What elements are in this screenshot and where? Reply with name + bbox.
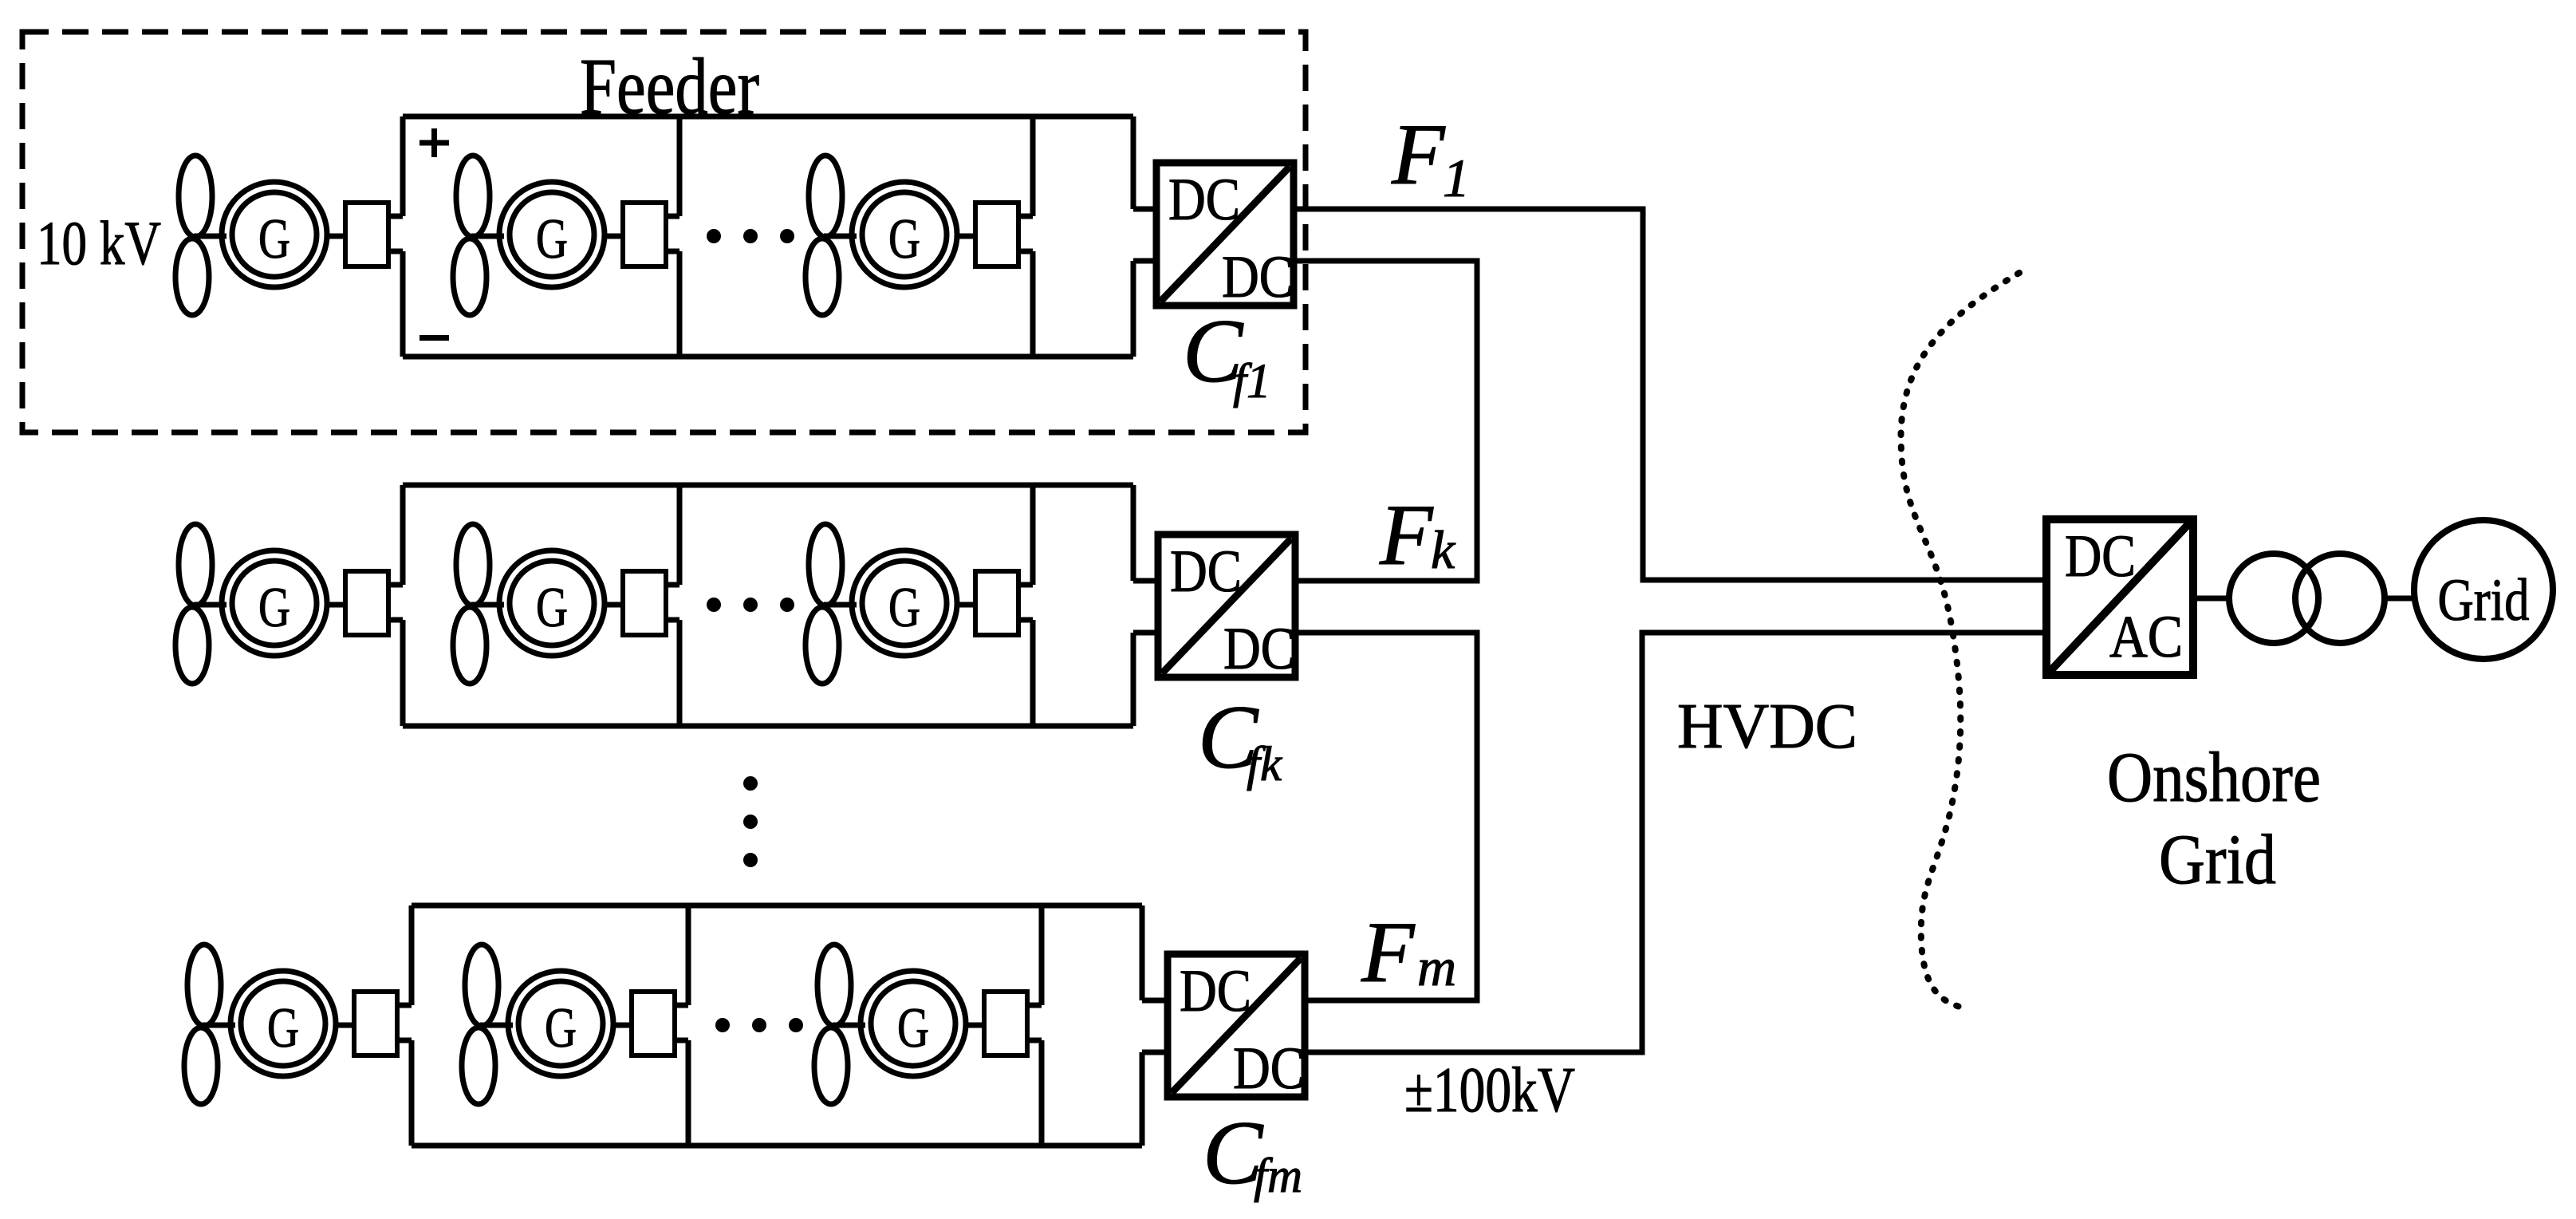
converter rect WT11 [345,203,388,266]
converter output stubs WT12 [666,216,679,251]
feeder loop separator row 2 [677,485,683,726]
feeder bus strip right edge row 3 [1140,905,1145,1146]
converter rect WT22 [623,571,666,635]
svg-text:DC: DC [1170,538,1242,605]
feeder loop bottom edge row 1 [403,354,1133,360]
converter rect WT12 [623,203,666,266]
ellipsis dots row 2 [707,598,794,612]
svg-text:G: G [258,577,290,639]
feeder loop top edge row 3 [412,903,1142,909]
svg-text:DC: DC [1168,167,1240,233]
generator G WT12 [499,182,605,287]
converter output stubs WT13 [1018,216,1033,251]
svg-text:m: m [1417,937,1456,997]
ellipsis dots row 1 [707,229,794,243]
wire generator-to-converter WT32 [613,1023,632,1028]
feeder loop left edge row 3 [409,905,415,1146]
stubs strip to DC/DC converter row 1 [1133,209,1156,261]
wind turbine WT23 [805,524,857,684]
wind turbine WT22 [453,524,504,684]
svg-text:fk: fk [1247,738,1282,791]
converter rect WT23 [975,571,1018,635]
feeder bus strip right edge row 2 [1131,485,1136,726]
feeder bus strip left edge row 3 [1039,905,1045,1146]
converter output stubs WT31 [397,1005,412,1040]
stubs strip to DC/DC converter row 3 [1142,1000,1168,1052]
svg-text:DC: DC [1233,1036,1305,1102]
svg-text:Grid: Grid [2159,821,2276,899]
wind turbine WT31 [184,945,235,1104]
svg-text:HVDC: HVDC [1677,690,1857,762]
feeder loop bottom edge row 3 [412,1143,1142,1149]
label C_fm [1203,1103,1302,1203]
svg-text:F: F [1391,106,1446,203]
svg-text:DC: DC [1180,958,1251,1024]
svg-text:10 kV: 10 kV [37,208,161,278]
dashed feeder boundary box [22,32,1306,432]
label Onshore Grid [2107,739,2321,899]
svg-text:AC: AC [2109,604,2183,670]
label F_1 [1391,106,1470,208]
wire generator-to-converter WT33 [966,1023,984,1028]
wire DC/AC to transformer [2193,596,2229,602]
wire F1 positive output to HVDC positive pole [1294,209,2046,580]
feeder loop top edge row 1 [403,114,1133,120]
svg-text:k: k [1431,519,1456,580]
transformer T1 [2229,554,2385,643]
feeder bus strip left edge row 1 [1030,116,1036,357]
label F_m [1361,904,1456,1000]
label C_f1 [1183,302,1270,408]
wind turbine WT13 [805,156,857,315]
svg-text:Onshore: Onshore [2107,739,2321,817]
coastline dotted curve [1900,273,2019,1008]
converter rect WT21 [345,571,388,635]
vertical ellipsis dots [743,776,758,867]
svg-text:1: 1 [1443,148,1470,208]
wind turbine WT12 [453,156,504,315]
svg-text:DC: DC [2065,523,2136,590]
label F_k [1379,487,1456,583]
stubs strip to DC/DC converter row 2 [1133,581,1158,633]
feeder loop left edge row 1 [400,116,406,357]
wind turbine WT33 [814,945,865,1104]
generator G WT11 [222,182,327,287]
svg-text:Grid: Grid [2438,567,2530,633]
generator G WT31 [230,971,336,1076]
converter rect WT31 [354,992,397,1055]
wire Fk negative output to Fm positive output [1295,633,1477,1000]
generator G WT32 [508,971,613,1076]
converter output stubs WT22 [666,585,679,620]
DC/DC converter C_fk box [1158,535,1295,682]
svg-text:G: G [267,997,299,1059]
wire generator-to-converter WT31 [336,1023,354,1028]
plus polarity mark [419,128,449,157]
feeder loop separator row 3 [686,905,691,1146]
feeder loop top edge row 2 [403,483,1133,488]
svg-text:G: G [888,208,920,270]
converter rect WT33 [984,992,1027,1055]
feeder loop separator row 1 [677,116,683,357]
feeder loop left edge row 2 [400,485,406,726]
converter output stubs WT21 [388,585,403,620]
wire generator-to-converter WT23 [957,602,975,608]
converter output stubs WT32 [675,1005,688,1040]
label C_fk [1198,688,1282,791]
svg-text:G: G [897,997,929,1059]
feeder bus strip left edge row 2 [1030,485,1036,726]
wire generator-to-converter WT22 [605,602,623,608]
DC/AC converter U_grid box [2046,519,2193,675]
svg-text:±100kV: ±100kV [1404,1055,1575,1126]
svg-text:G: G [545,997,577,1059]
converter output stubs WT23 [1018,585,1033,620]
svg-text:DC: DC [1223,616,1295,682]
DC/DC converter C_fm box [1168,954,1305,1102]
svg-text:fm: fm [1254,1150,1302,1203]
svg-text:f1: f1 [1233,355,1270,408]
generator G WT22 [499,550,605,656]
generator G WT21 [222,550,327,656]
wire generator-to-converter WT12 [605,234,623,239]
minus polarity mark [419,335,449,341]
converter output stubs WT33 [1027,1005,1042,1040]
feeder bus strip right edge row 1 [1131,116,1136,357]
svg-text:G: G [258,208,290,270]
svg-text:F: F [1379,487,1434,583]
generator G WT33 [861,971,966,1076]
wire generator-to-converter WT21 [327,602,345,608]
svg-text:G: G [536,208,568,270]
wind turbine WT11 [175,156,226,315]
svg-text:DC: DC [1222,244,1294,310]
converter rect WT32 [632,992,675,1055]
converter rect WT13 [975,203,1018,266]
svg-text:F: F [1361,904,1416,1000]
wind turbine WT21 [175,524,226,684]
wire F1 negative output to Fk positive output [1294,261,1477,581]
generator G WT13 [852,182,957,287]
generator G WT23 [852,550,957,656]
svg-text:G: G [888,577,920,639]
wind turbine WT32 [462,945,513,1104]
converter output stubs WT11 [388,216,403,251]
svg-text:G: G [536,577,568,639]
ellipsis dots row 3 [715,1018,803,1032]
feeder loop bottom edge row 2 [403,724,1133,729]
wire Fm negative output to HVDC negative pole [1305,633,2046,1052]
wire generator-to-converter WT13 [957,234,975,239]
grid node circle [2414,520,2553,659]
wire generator-to-converter WT11 [327,234,345,239]
DC/DC converter C_f1 box [1156,163,1294,310]
wire transformer to grid [2385,596,2414,602]
